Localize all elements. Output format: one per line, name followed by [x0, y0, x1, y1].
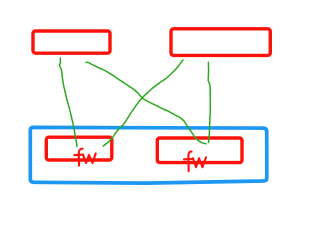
- blue container box: [30, 127, 266, 183]
- label fw left: [74, 149, 96, 166]
- box top-right: [171, 29, 270, 56]
- wire A: top-left box to left firewall: [59, 58, 77, 146]
- wire D: top-right box to right firewall: [208, 62, 210, 142]
- wire B: top-left box to right firewall: [86, 62, 206, 143]
- box top-left: [33, 31, 110, 53]
- label fw right: [184, 151, 206, 171]
- firewall box right: [157, 138, 242, 163]
- wire C: left firewall to top-right box: [103, 60, 183, 146]
- firewall box left: [46, 137, 112, 160]
